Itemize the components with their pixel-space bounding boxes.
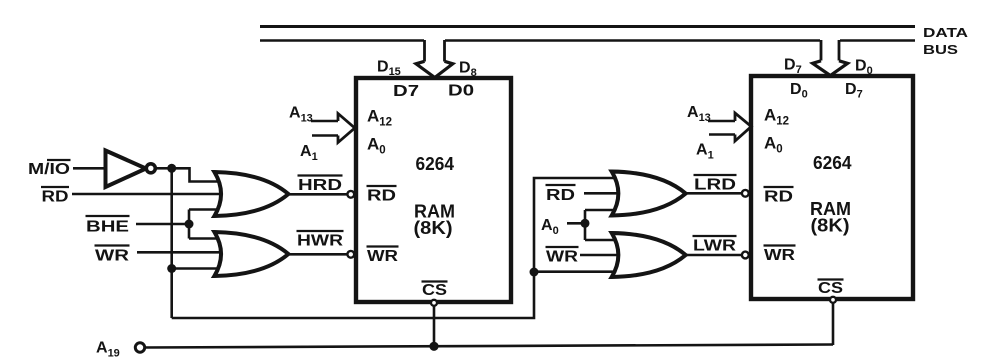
wire step from junction to gate1 top input [172,168,226,181]
RAM chip 6264 left (high bank) [356,78,511,302]
node A0 junction [581,219,590,228]
wire route to gate4 bottom input [534,270,622,273]
data bus top line [260,25,915,28]
wire RD stub to gate3 [584,192,622,195]
pin circle right chip RD [742,190,749,197]
node on route feeding gate4 [530,268,539,277]
bus tap arrow into left RAM (D15-D8) [416,40,453,78]
wire BHE branch to gate2 top input [189,237,226,240]
wire rail to gate2 bottom input [172,267,226,270]
wire HRD gate1 output to left chip RD pin [288,193,347,196]
pin circle left chip WR [347,251,354,258]
svg-text:WR: WR [764,247,796,264]
wire A0 to junction [567,222,585,225]
address arrow A13..A1 into right chip [708,120,735,123]
svg-text:LWR: LWR [693,238,737,255]
svg-text:CS: CS [818,280,843,297]
wire A19 select line [145,345,833,348]
svg-text:M/IO: M/IO [28,161,70,178]
svg-text:BHE: BHE [86,219,129,236]
pin circle right chip WR [742,252,749,259]
pin circle left chip RD [347,191,354,198]
address arrow A13..A1 into left chip [311,120,338,123]
wire IO/M vertical rail [170,168,173,318]
svg-text:(8K): (8K) [414,218,453,238]
wire right chip CS vertical [832,300,835,346]
wire WR to gate2 [137,251,226,254]
or-gate G3 (LRD) [612,172,686,216]
data bus second line segment 2 [445,39,820,42]
svg-text:RD: RD [764,189,793,206]
bus tap arrow into right RAM (D7-D0) [813,40,848,76]
svg-text:6264: 6264 [813,153,852,173]
pin circle right chip CS [830,297,836,303]
node A19 to left chip CS [429,342,438,351]
svg-text:HRD: HRD [298,177,342,194]
svg-text:CS: CS [422,282,447,299]
svg-text:WR: WR [95,248,130,265]
RAM chip 6264 right (low bank) [751,76,913,299]
data bus second line segment 3 [840,39,915,42]
wire WR stub to gate4 [580,254,622,257]
svg-text:HWR: HWR [297,233,344,250]
svg-text:RD: RD [367,188,396,205]
wire BHE branch to gate1 bottom input [189,208,226,211]
svg-text:D0: D0 [448,83,474,100]
svg-text:(8K): (8K) [811,216,850,236]
node: inverter output junction [167,164,176,173]
or-gate G1 (HRD) [214,172,288,216]
or-gate G4 (LWR) [612,233,686,277]
svg-text:DATA: DATA [923,26,968,40]
wire A0 branch to gate4 top input [585,239,622,242]
wire LRD gate3 output to right chip RD pin [686,192,742,195]
svg-text:6264: 6264 [416,154,455,174]
svg-text:RD: RD [546,187,575,204]
wire LWR gate4 output to right chip WR pin [686,254,742,257]
svg-text:BUS: BUS [923,43,958,57]
node BHE junction [185,220,194,229]
wire BHE branch vertical [188,210,191,239]
wire IO/M route bottom and up right [172,178,622,318]
svg-text:WR: WR [367,248,399,265]
pin circle left chip CS [431,300,437,306]
inverter U1 [106,151,147,188]
svg-text:WR: WR [546,249,579,266]
node on IO/M rail feeding gate2 [167,264,176,273]
wire HWR gate2 output to left chip WR pin [288,253,347,256]
wire RD to gate1 [72,193,226,196]
wire left chip CS vertical [433,303,436,347]
wire inverter output to junction [156,167,171,170]
wire A0 branch vertical [584,210,587,240]
wire BHE to junction [136,223,189,226]
or-gate G2 (HWR) [214,232,288,276]
A19 source open circle [135,343,144,352]
svg-text:RD: RD [42,189,69,206]
data bus second line segment 1 [260,39,424,42]
svg-text:LRD: LRD [694,177,736,194]
wire A0 branch to gate3 bottom input [585,209,622,212]
svg-text:D7: D7 [393,83,419,100]
wire M/IO to inverter [73,167,106,170]
